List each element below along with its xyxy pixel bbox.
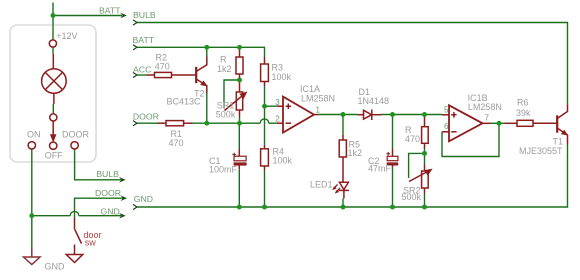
svg-text:R6: R6 bbox=[517, 98, 529, 108]
svg-text:1k2: 1k2 bbox=[217, 64, 232, 74]
svg-text:3: 3 bbox=[275, 98, 280, 107]
svg-text:ACC: ACC bbox=[133, 64, 151, 74]
svg-text:LM258N: LM258N bbox=[301, 93, 335, 103]
svg-text:2: 2 bbox=[275, 114, 280, 123]
svg-text:100k: 100k bbox=[273, 156, 293, 166]
svg-text:BATT: BATT bbox=[133, 35, 155, 45]
svg-text:GND: GND bbox=[101, 207, 120, 217]
svg-text:DOOR: DOOR bbox=[95, 188, 121, 198]
svg-text:7: 7 bbox=[485, 114, 490, 123]
svg-text:LED1: LED1 bbox=[310, 179, 333, 189]
svg-text:BULB: BULB bbox=[133, 10, 156, 20]
svg-text:1k2: 1k2 bbox=[348, 148, 363, 158]
svg-text:39k: 39k bbox=[516, 108, 531, 118]
svg-text:1: 1 bbox=[316, 106, 321, 115]
svg-text:100mF: 100mF bbox=[209, 165, 238, 175]
svg-text:MJE3055T: MJE3055T bbox=[519, 146, 563, 156]
svg-text:500k: 500k bbox=[402, 192, 422, 202]
svg-text:BC413C: BC413C bbox=[167, 96, 202, 106]
svg-text:DOOR: DOOR bbox=[133, 111, 159, 121]
svg-text:500k: 500k bbox=[216, 109, 236, 119]
svg-text:5: 5 bbox=[444, 105, 449, 114]
svg-text:GND: GND bbox=[45, 262, 66, 272]
svg-text:470: 470 bbox=[169, 138, 184, 148]
svg-text:OFF: OFF bbox=[45, 151, 63, 161]
svg-text:470: 470 bbox=[155, 62, 170, 72]
svg-text:1N4148: 1N4148 bbox=[358, 96, 390, 106]
svg-text:T1: T1 bbox=[553, 137, 564, 147]
svg-text:sw: sw bbox=[85, 238, 97, 248]
svg-text:ON: ON bbox=[27, 130, 41, 140]
svg-text:BULB: BULB bbox=[96, 169, 119, 179]
svg-text:BATT: BATT bbox=[99, 5, 121, 15]
svg-text:100k: 100k bbox=[272, 72, 292, 82]
svg-text:LM258N: LM258N bbox=[468, 102, 502, 112]
svg-text:GND: GND bbox=[134, 194, 153, 204]
svg-text:DOOR: DOOR bbox=[62, 130, 90, 140]
svg-text:47mF: 47mF bbox=[368, 163, 392, 173]
svg-text:470: 470 bbox=[405, 134, 420, 144]
svg-text:6: 6 bbox=[444, 122, 449, 131]
svg-text:+12V: +12V bbox=[56, 31, 77, 41]
